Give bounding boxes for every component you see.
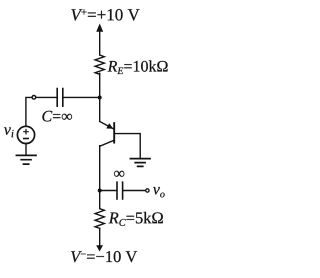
wire R_C to V- arrow	[99, 228, 101, 245]
wire rail collector down	[99, 146, 101, 209]
label R_E = 10k ohm	[108, 60, 168, 74]
label v_i	[4, 127, 14, 137]
label C = infinity	[42, 111, 72, 122]
node output terminal v_o	[146, 189, 149, 192]
wire rail from R_E to emitter	[99, 73, 101, 121]
label R_C = 5k ohm	[109, 212, 163, 226]
capacitor C2 (output, infinity)	[117, 182, 123, 199]
transistor Q1 base bar	[113, 123, 115, 143]
label V- = -10 V	[71, 251, 137, 262]
label v_o	[153, 187, 165, 197]
resistor R_E	[95, 55, 104, 74]
transistor Q1 emitter wire	[100, 122, 114, 129]
capacitor C1 (input, C=infinity)	[57, 89, 63, 107]
wire source to ground	[25, 144, 27, 155]
source v_i	[17, 126, 34, 143]
wire base to ground	[114, 134, 140, 158]
transistor Q1 emitter arrow	[106, 123, 113, 129]
label infinity (output cap)	[114, 171, 124, 177]
node output junction	[98, 189, 102, 193]
ground (right)	[130, 159, 150, 167]
label V+ = +10 V	[71, 9, 139, 21]
node input terminal	[32, 96, 36, 100]
wire capacitor to output terminal	[123, 190, 145, 192]
transistor Q1 collector wire	[100, 140, 114, 146]
wire junction to capacitor	[100, 190, 117, 192]
wire input left of capacitor	[36, 96, 56, 98]
node V- supply arrow	[96, 245, 103, 251]
node V+ supply arrow	[99, 31, 101, 56]
wire terminal to source	[26, 97, 32, 126]
ground (left)	[16, 155, 36, 164]
node input junction	[98, 96, 102, 100]
wire input right of capacitor	[63, 96, 99, 98]
resistor R_C	[95, 209, 104, 229]
